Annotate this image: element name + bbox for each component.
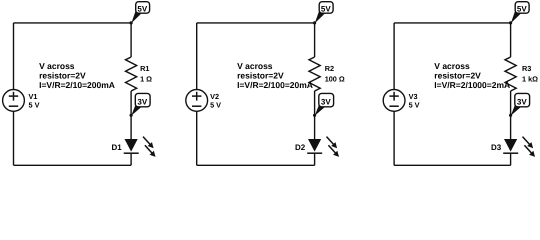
svg-text:5V: 5V [137,4,147,13]
svg-text:5V: 5V [321,4,331,13]
svg-text:R1: R1 [140,64,149,73]
svg-text:D3: D3 [491,143,502,152]
svg-text:1 Ω: 1 Ω [140,74,152,83]
svg-text:3V: 3V [137,97,147,106]
svg-text:resistor=2V: resistor=2V [434,70,481,80]
svg-text:V across: V across [39,61,75,71]
svg-text:5 V: 5 V [210,101,221,110]
svg-text:I=V/R=2/1000=2mA: I=V/R=2/1000=2mA [434,80,510,90]
svg-text:3V: 3V [321,97,331,106]
svg-text:100 Ω: 100 Ω [325,74,345,83]
svg-text:resistor=2V: resistor=2V [39,70,86,80]
svg-text:D1: D1 [111,143,122,152]
svg-text:1 kΩ: 1 kΩ [522,74,538,83]
svg-text:V across: V across [434,61,470,71]
svg-text:5V: 5V [517,4,527,13]
svg-text:R3: R3 [522,64,531,73]
svg-text:5 V: 5 V [409,101,420,110]
svg-text:3V: 3V [517,97,527,106]
svg-text:resistor=2V: resistor=2V [237,70,284,80]
svg-text:D2: D2 [295,143,306,152]
svg-text:I=V/R=2/100=20mA: I=V/R=2/100=20mA [237,80,313,90]
svg-text:I=V/R=2/10=200mA: I=V/R=2/10=200mA [39,80,115,90]
svg-text:5 V: 5 V [29,101,40,110]
svg-text:V across: V across [237,61,273,71]
svg-text:R2: R2 [325,64,334,73]
